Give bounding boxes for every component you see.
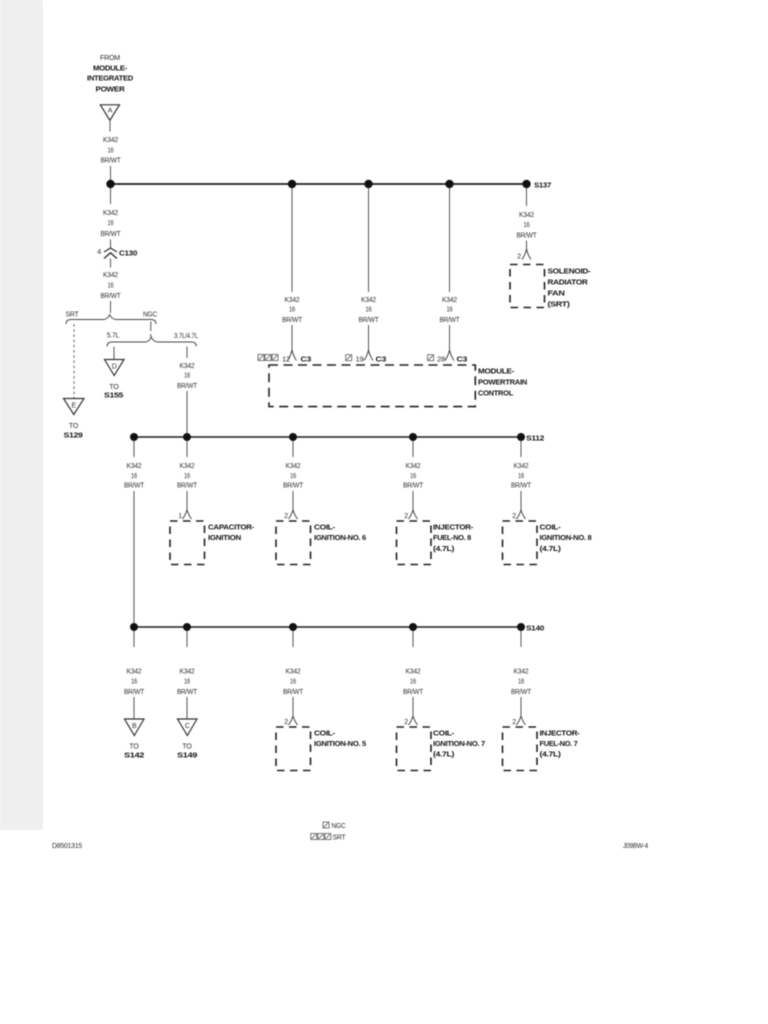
svg-text:(4.7L): (4.7L) xyxy=(433,750,455,759)
svg-text:K342: K342 xyxy=(180,463,195,470)
svg-text:IGNITION-NO. 8: IGNITION-NO. 8 xyxy=(540,533,592,542)
off-page connector triangle B xyxy=(124,719,144,760)
svg-text:BR/WT: BR/WT xyxy=(177,383,198,390)
junction dots on S137 bus xyxy=(106,180,114,188)
svg-text:K342: K342 xyxy=(127,669,142,676)
capacitor-ignition box xyxy=(170,521,255,565)
module-powertrain control box xyxy=(269,365,527,407)
wire to coil-ignition-no.7 xyxy=(412,631,414,647)
svg-text:IGNITION: IGNITION xyxy=(208,533,241,542)
svg-text:B: B xyxy=(132,723,137,730)
coil-ignition-no.8 box xyxy=(503,521,592,565)
svg-text:S112: S112 xyxy=(526,434,544,443)
svg-text:COIL-: COIL- xyxy=(540,523,562,532)
svg-text:C3: C3 xyxy=(376,355,387,364)
wire to capacitor-ignition xyxy=(186,441,188,457)
svg-text:TO: TO xyxy=(69,423,79,430)
svg-text:16: 16 xyxy=(518,473,524,480)
svg-text:E: E xyxy=(72,403,77,410)
wire to coil-ignition-no.6 xyxy=(292,441,294,457)
coil-ignition-no.7 box xyxy=(397,727,486,771)
svg-text:FUEL-NO. 7: FUEL-NO. 7 xyxy=(540,739,578,748)
svg-text:16: 16 xyxy=(131,679,137,686)
svg-text:K342: K342 xyxy=(514,669,529,676)
svg-text:IGNITION-NO. 5: IGNITION-NO. 5 xyxy=(314,739,367,748)
svg-text:16: 16 xyxy=(184,679,190,686)
svg-text:MODULE-: MODULE- xyxy=(93,64,128,73)
svg-text:28: 28 xyxy=(437,357,445,364)
svg-text:BR/WT: BR/WT xyxy=(403,689,424,696)
svg-text:K342: K342 xyxy=(514,463,529,470)
svg-text:16: 16 xyxy=(290,679,296,686)
svg-text:19: 19 xyxy=(356,357,364,364)
wire from A to splice S137 bus xyxy=(109,120,111,131)
svg-text:CONTROL: CONTROL xyxy=(478,389,514,398)
connector fork solenoid pin 2 xyxy=(517,249,531,261)
svg-text:16: 16 xyxy=(410,473,416,480)
svg-text:NGC: NGC xyxy=(332,823,346,830)
connector fork pin 1 xyxy=(178,510,191,520)
svg-text:POWERTRAIN: POWERTRAIN xyxy=(478,378,527,387)
svg-text:MODULE-: MODULE- xyxy=(478,367,515,376)
off-page connector triangle D xyxy=(104,360,124,400)
wire to coil-ignition-no.8 xyxy=(520,441,522,457)
svg-text:16: 16 xyxy=(184,373,190,380)
connector fork C3 pin 28 xyxy=(428,350,467,364)
wire NGC branch to engine brace xyxy=(150,322,152,332)
svg-text:COIL-: COIL- xyxy=(314,523,336,532)
svg-text:SRT: SRT xyxy=(66,312,80,319)
svg-text:C3: C3 xyxy=(457,355,468,364)
svg-text:INTEGRATED: INTEGRATED xyxy=(87,74,134,83)
coil-ignition-no.6 box xyxy=(276,521,366,565)
svg-text:IGNITION-NO. 7: IGNITION-NO. 7 xyxy=(433,739,485,748)
svg-text:16: 16 xyxy=(289,307,295,314)
svg-text:2: 2 xyxy=(512,513,516,520)
svg-text:16: 16 xyxy=(108,148,114,155)
svg-text:2: 2 xyxy=(517,254,521,261)
svg-text:POWER: POWER xyxy=(96,85,126,94)
svg-text:C130: C130 xyxy=(119,249,137,258)
svg-text:16: 16 xyxy=(518,679,524,686)
scan background left band xyxy=(0,0,43,830)
wire 5.7L branch to D xyxy=(113,347,115,360)
svg-text:16: 16 xyxy=(366,307,372,314)
svg-text:BR/WT: BR/WT xyxy=(440,317,461,324)
legend SRT xyxy=(311,834,347,842)
svg-text:BR/WT: BR/WT xyxy=(517,233,538,240)
junction dots on S140 bus xyxy=(130,623,138,631)
svg-text:S149: S149 xyxy=(177,751,197,760)
svg-text:2: 2 xyxy=(404,513,408,520)
svg-text:SRT: SRT xyxy=(333,835,347,842)
svg-text:BR/WT: BR/WT xyxy=(124,483,145,490)
svg-text:2: 2 xyxy=(512,719,516,726)
injector-fuel-no.7 box xyxy=(503,727,581,771)
connector fork C3 pin 19 xyxy=(346,350,386,364)
svg-text:S155: S155 xyxy=(104,391,124,400)
connector fork pin 2 xyxy=(284,510,297,520)
svg-text:COIL-: COIL- xyxy=(314,729,336,738)
wire to coil-ignition-no.5 xyxy=(292,631,294,647)
bus wire S140 xyxy=(134,626,521,628)
svg-text:CAPACITOR-: CAPACITOR- xyxy=(208,523,255,532)
wire label K342 16 BR/WT xyxy=(101,137,122,165)
svg-text:K342: K342 xyxy=(361,297,376,304)
junction dots on S112 bus xyxy=(130,433,138,441)
svg-text:12: 12 xyxy=(282,357,290,364)
svg-text:5.7L: 5.7L xyxy=(107,333,120,340)
wire 3.7L/4.7L branch down to S112 bus xyxy=(186,347,188,359)
svg-text:K342: K342 xyxy=(285,297,300,304)
svg-text:C: C xyxy=(185,723,190,730)
off-page connector triangle E xyxy=(64,399,85,440)
svg-text:K342: K342 xyxy=(286,669,301,676)
svg-text:K342: K342 xyxy=(286,463,301,470)
svg-text:16: 16 xyxy=(131,473,137,480)
bus wire S112 xyxy=(134,436,521,438)
coil-ignition-no.5 box xyxy=(276,727,367,771)
svg-text:INJECTOR-: INJECTOR- xyxy=(433,523,474,532)
svg-text:BR/WT: BR/WT xyxy=(282,317,303,324)
wire from C130 to brace xyxy=(110,259,112,268)
svg-text:A: A xyxy=(108,108,113,115)
svg-text:TO: TO xyxy=(129,744,139,751)
off-page connector triangle C xyxy=(177,719,197,760)
legend NGC xyxy=(323,822,346,830)
svg-text:K342: K342 xyxy=(103,210,118,217)
svg-text:RADIATOR: RADIATOR xyxy=(548,278,589,287)
svg-text:D: D xyxy=(112,364,117,371)
wire from S137 to solenoid fan xyxy=(526,188,528,206)
svg-text:BR/WT: BR/WT xyxy=(511,689,532,696)
svg-text:BR/WT: BR/WT xyxy=(124,689,145,696)
svg-text:BR/WT: BR/WT xyxy=(101,293,122,300)
svg-text:4: 4 xyxy=(97,249,101,256)
svg-text:16: 16 xyxy=(447,307,453,314)
svg-text:K342: K342 xyxy=(103,137,118,144)
option brace 5.7L / 3.7L,4.7L xyxy=(107,333,199,347)
svg-text:2: 2 xyxy=(284,513,288,520)
wire col2 to C xyxy=(186,631,188,647)
svg-text:K342: K342 xyxy=(103,272,118,279)
svg-text:K342: K342 xyxy=(406,669,421,676)
svg-text:16: 16 xyxy=(184,473,190,480)
svg-text:2: 2 xyxy=(404,719,408,726)
svg-text:K342: K342 xyxy=(519,212,534,219)
svg-text:BR/WT: BR/WT xyxy=(283,689,304,696)
wire to injector-fuel-no.8 xyxy=(412,441,414,457)
wire to PCM C3 pin 19 xyxy=(368,188,370,292)
svg-text:16: 16 xyxy=(524,222,530,229)
svg-text:1: 1 xyxy=(178,513,182,520)
connector fork pin 2 xyxy=(284,716,297,726)
svg-text:BR/WT: BR/WT xyxy=(359,317,380,324)
svg-text:FROM: FROM xyxy=(100,55,120,62)
wire col1 S112 to S140 xyxy=(133,441,135,457)
svg-text:FUEL-NO. 8: FUEL-NO. 8 xyxy=(433,533,471,542)
svg-text:(4.7L): (4.7L) xyxy=(540,544,562,553)
wire to injector-fuel-no.7 xyxy=(520,631,522,647)
svg-text:NGC: NGC xyxy=(143,312,157,319)
svg-text:D8501315: D8501315 xyxy=(52,843,82,850)
svg-text:S129: S129 xyxy=(64,431,83,440)
connector fork pin 2 xyxy=(404,716,417,726)
svg-text:K342: K342 xyxy=(406,463,421,470)
svg-text:K342: K342 xyxy=(442,297,457,304)
connector fork pin 2 xyxy=(404,510,417,520)
svg-text:16: 16 xyxy=(290,473,296,480)
svg-text:BR/WT: BR/WT xyxy=(101,231,122,238)
svg-text:BR/WT: BR/WT xyxy=(511,483,532,490)
svg-text:BR/WT: BR/WT xyxy=(283,483,304,490)
svg-text:FAN: FAN xyxy=(548,289,565,298)
svg-text:C3: C3 xyxy=(301,355,312,364)
svg-text:3.7L/4.7L: 3.7L/4.7L xyxy=(174,333,198,340)
wire below first dot to C130 xyxy=(110,188,112,204)
svg-text:BR/WT: BR/WT xyxy=(403,483,424,490)
svg-text:(4.7L): (4.7L) xyxy=(433,544,455,553)
bus wire S137 xyxy=(111,183,527,185)
option brace SRT / NGC xyxy=(66,312,158,325)
svg-text:2: 2 xyxy=(284,719,288,726)
svg-text:J09BW-4: J09BW-4 xyxy=(623,843,648,850)
svg-text:INJECTOR-: INJECTOR- xyxy=(540,729,581,738)
solenoid-radiator fan (SRT) box xyxy=(510,265,591,309)
svg-text:S137: S137 xyxy=(534,181,551,190)
wire col1 to B xyxy=(133,631,135,647)
off-page connector triangle A xyxy=(100,105,119,121)
wire to PCM C3 pin 28 xyxy=(449,188,451,292)
svg-text:S140: S140 xyxy=(526,624,544,633)
svg-text:IGNITION-NO. 6: IGNITION-NO. 6 xyxy=(314,533,366,542)
svg-text:K342: K342 xyxy=(180,363,195,370)
svg-text:BR/WT: BR/WT xyxy=(101,158,122,165)
injector-fuel-no.8 box xyxy=(397,521,474,565)
svg-text:16: 16 xyxy=(410,679,416,686)
svg-text:(SRT): (SRT) xyxy=(548,300,571,309)
svg-text:COIL-: COIL- xyxy=(433,729,455,738)
in-line connector C130 pin 4 xyxy=(97,248,137,259)
svg-text:16: 16 xyxy=(108,220,114,227)
svg-text:K342: K342 xyxy=(180,669,195,676)
svg-text:SOLENOID-: SOLENOID- xyxy=(548,267,592,276)
svg-text:BR/WT: BR/WT xyxy=(177,483,198,490)
svg-text:BR/WT: BR/WT xyxy=(177,689,198,696)
header label FROM MODULE-INTEGRATED POWER xyxy=(87,55,134,94)
svg-text:(4.7L): (4.7L) xyxy=(540,750,562,759)
connector fork pin 2 xyxy=(512,510,525,520)
svg-text:16: 16 xyxy=(108,283,114,290)
svg-text:S142: S142 xyxy=(124,751,144,760)
wire to PCM C3 pin 12 xyxy=(291,188,293,292)
connector fork C3 pin 12 xyxy=(258,350,311,364)
svg-text:TO: TO xyxy=(182,744,192,751)
dashed wire SRT branch to E xyxy=(73,324,75,398)
svg-text:K342: K342 xyxy=(127,463,142,470)
connector fork pin 2 xyxy=(512,716,525,726)
